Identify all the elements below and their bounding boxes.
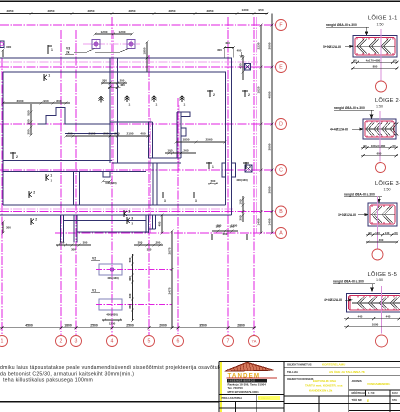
section 5-5 rebar hatch	[352, 297, 400, 310]
svg-text:1: 1	[212, 165, 214, 169]
svg-text:3: 3	[156, 103, 158, 107]
svg-text:3500: 3500	[199, 323, 207, 327]
svg-text:400: 400	[237, 49, 242, 53]
svg-text:200: 200	[114, 132, 119, 136]
room mark K1 b	[46, 174, 53, 183]
wall centerline x179	[178, 105, 180, 170]
svg-text:400(430): 400(430)	[106, 313, 118, 317]
dim bottom row	[0, 323, 256, 329]
section 3-3 beam outline	[368, 203, 397, 226]
bubble axis C	[276, 165, 287, 176]
svg-text:3: 3	[128, 210, 130, 214]
tree mark 3 top a	[125, 96, 131, 107]
svg-text:60: 60	[368, 231, 372, 235]
svg-text:600: 600	[223, 232, 228, 236]
terrace stub x63	[63, 215, 65, 243]
svg-text:1850: 1850	[142, 47, 146, 54]
bubble axis 4	[107, 336, 118, 347]
section mark 2 right b	[242, 90, 250, 97]
wall outer bottom	[0, 214, 232, 216]
interior wall x110	[109, 58, 111, 163]
svg-text:3: 3	[75, 339, 78, 345]
dim col x272	[267, 14, 273, 235]
svg-text:300: 300	[138, 241, 143, 245]
dim V col	[128, 254, 134, 322]
svg-text:2675: 2675	[167, 247, 171, 254]
room wall x157	[156, 163, 158, 205]
bubble axis D	[276, 119, 287, 130]
svg-text:1:50: 1:50	[376, 105, 383, 109]
svg-text:1: 1	[48, 74, 50, 78]
svg-text:400: 400	[157, 221, 161, 226]
dim 105 265 row	[165, 149, 196, 155]
dim 400 2100 row	[64, 132, 150, 138]
svg-text:2850: 2850	[48, 9, 55, 13]
sheet bottom border	[0, 401, 219, 403]
dim terrace right ends	[134, 241, 163, 252]
svg-text:400(430): 400(430)	[107, 276, 119, 280]
svg-text:265: 265	[183, 149, 188, 153]
wall inner top	[3, 71, 226, 73]
tree mark 3 d	[211, 234, 213, 240]
cell tellija	[287, 370, 298, 374]
interior wall x148	[148, 122, 150, 158]
svg-text:3: 3	[131, 217, 133, 221]
svg-text:6: 6	[177, 339, 180, 345]
cell too nr	[352, 397, 398, 402]
axis B horizontal	[0, 211, 276, 213]
svg-text:60: 60	[353, 58, 357, 62]
pad V1 centerline	[96, 304, 172, 306]
svg-text:3000: 3000	[267, 42, 271, 49]
svg-text:2850: 2850	[129, 9, 136, 13]
wall right inner	[225, 72, 227, 205]
svg-text:A: A	[279, 231, 283, 237]
svg-text:360: 360	[217, 224, 222, 228]
bubble axis A	[276, 228, 287, 239]
svg-text:2800: 2800	[237, 323, 245, 327]
wall left	[2, 72, 4, 205]
logo TANDEM	[225, 362, 278, 383]
wall step left	[38, 108, 110, 125]
tree mark 3 a	[163, 192, 166, 203]
pad V1	[99, 299, 122, 310]
pad column right	[245, 165, 252, 172]
bubble axis F	[276, 20, 287, 31]
svg-text:2850: 2850	[207, 9, 214, 13]
section 5-5 rebar dots	[357, 296, 395, 310]
pad V2	[99, 264, 122, 275]
svg-text:500: 500	[128, 257, 132, 262]
svg-text:350: 350	[128, 304, 132, 309]
dim terrace left ends	[56, 241, 91, 252]
section 2-2 bars label	[330, 128, 363, 132]
svg-text:100: 100	[238, 199, 242, 204]
section 1-1 dims	[351, 58, 399, 70]
svg-text:2100: 2100	[127, 132, 134, 136]
value koosseis 1	[313, 379, 337, 383]
svg-text:60: 60	[393, 58, 397, 62]
interior wall y122	[110, 121, 153, 123]
svg-text:1850: 1850	[183, 138, 190, 142]
svg-text:2: 2	[16, 155, 18, 159]
svg-text:4+4Ø12A-III: 4+4Ø12A-III	[324, 298, 342, 302]
row projekteeris	[222, 396, 271, 400]
svg-text:LÕIGE 5-5: LÕIGE 5-5	[368, 271, 398, 278]
interior wall x117	[117, 58, 119, 163]
svg-text:140: 140	[375, 231, 380, 235]
axis 6 vertical	[177, 98, 179, 335]
svg-text:4: 4	[111, 339, 114, 345]
svg-text:KORTERELAMU: KORTERELAMU	[322, 362, 345, 366]
svg-text:1 :50: 1 :50	[368, 391, 375, 395]
terrace wall bottom	[77, 231, 149, 233]
svg-text:F: F	[279, 23, 282, 29]
svg-text:2850: 2850	[7, 9, 14, 13]
bubble axis B	[276, 206, 287, 217]
svg-text:C: C	[279, 168, 283, 174]
dim col x261	[256, 23, 262, 234]
door notch	[103, 172, 110, 178]
svg-text:1: 1	[249, 165, 251, 169]
axis 7 vertical	[227, 17, 229, 335]
svg-text:300: 300	[26, 119, 30, 124]
svg-text:200: 200	[120, 79, 125, 83]
dim 400 300 corner	[217, 41, 242, 57]
svg-text:300: 300	[238, 215, 242, 220]
svg-text:2: 2	[60, 339, 63, 345]
section 5-5 beam outline	[347, 294, 400, 313]
svg-text:rangid Ø8A-III s.300: rangid Ø8A-III s.300	[344, 193, 375, 197]
room mark K3 b	[127, 217, 134, 226]
bubble axis 3	[71, 336, 82, 347]
section 5-5 stirrup	[349, 296, 400, 311]
svg-text:3: 3	[195, 199, 197, 203]
dim 360 1300	[217, 224, 238, 228]
svg-text:5: 5	[148, 339, 151, 345]
wall outer top	[0, 57, 232, 59]
terrace stub x60	[60, 215, 62, 243]
axis E horizontal	[0, 66, 276, 68]
label V1	[91, 289, 100, 293]
section 5-5 title	[368, 271, 398, 282]
logo address	[228, 382, 267, 393]
dim 300 left edge	[1, 45, 11, 57]
svg-text:400: 400	[225, 41, 230, 45]
section mark 2 right a	[207, 90, 215, 97]
interior wall x181	[180, 112, 182, 158]
svg-text:2: 2	[213, 93, 215, 97]
svg-text:2850: 2850	[88, 9, 95, 13]
svg-text:7: 7	[227, 339, 230, 345]
axis D horizontal	[0, 123, 276, 125]
svg-text:2000: 2000	[159, 323, 167, 327]
bubble axis 5	[144, 336, 155, 347]
wall centerline top	[0, 61, 258, 63]
svg-text:1:50: 1:50	[376, 278, 383, 282]
corridor wall top-right	[149, 157, 182, 159]
cell objekti koosseis	[287, 377, 314, 381]
svg-text:900: 900	[43, 99, 48, 103]
axis 4 vertical	[111, 17, 113, 335]
section 5-5 bubble	[376, 335, 388, 347]
svg-text:OBJEKTI KOOSSEIS: OBJEKTI KOOSSEIS	[287, 377, 314, 381]
dim top 2850 row	[0, 8, 269, 15]
notes line 3	[3, 378, 93, 384]
dim 1200 pads	[93, 30, 133, 36]
svg-text:1300: 1300	[231, 224, 238, 228]
pad V3 right	[127, 40, 135, 49]
interior wall x152	[152, 122, 154, 158]
notes line 2	[0, 372, 134, 378]
svg-text:2: 2	[33, 191, 35, 195]
svg-text:rangid Ø8A-III s.300: rangid Ø8A-III s.300	[334, 106, 365, 110]
section 3-3 rebar dots	[371, 206, 391, 224]
dim col x243 upper	[238, 55, 244, 80]
terrace stub cap	[149, 228, 156, 230]
section 3-3 title	[375, 180, 400, 192]
svg-text:KUU: KUU	[392, 391, 398, 395]
svg-text:EHITUSLIK OSA: EHITUSLIK OSA	[313, 379, 337, 383]
axis 3 vertical	[75, 30, 77, 335]
dim 1850 vertical	[142, 40, 148, 71]
svg-text:950: 950	[258, 8, 263, 12]
value joonis	[367, 382, 391, 386]
pad column corner E	[245, 64, 251, 71]
svg-text:D: D	[279, 122, 283, 128]
section 1-1 beam outline	[353, 36, 397, 58]
section 2-2 rebar dots	[366, 121, 393, 137]
svg-text:LÕIGE 1-1: LÕIGE 1-1	[368, 15, 398, 22]
svg-text:1200: 1200	[119, 30, 126, 34]
svg-text:2500: 2500	[90, 323, 98, 327]
svg-text:2100: 2100	[89, 132, 96, 136]
svg-text:1: 1	[50, 174, 52, 178]
svg-text:445: 445	[358, 315, 363, 319]
svg-text:1:50: 1:50	[377, 23, 384, 27]
section 3-3 stirrup	[370, 205, 395, 224]
svg-text:1200: 1200	[101, 30, 108, 34]
tree mark small a	[99, 97, 104, 103]
svg-text:4x170=680: 4x170=680	[366, 58, 381, 62]
svg-text:1300: 1300	[242, 8, 249, 12]
svg-text:MTR EP10065279-0001: MTR EP10065279-0001	[228, 390, 260, 394]
corridor wall mid	[112, 162, 181, 164]
section mark 5 a	[206, 162, 214, 169]
svg-text:400: 400	[67, 132, 72, 136]
svg-text:TARTU mnt. KONSTR. osa: TARTU mnt. KONSTR. osa	[305, 384, 343, 388]
value koosseis 2	[305, 384, 343, 388]
svg-text:3+3Ø12A-III: 3+3Ø12A-III	[338, 213, 356, 217]
svg-text:4500: 4500	[25, 323, 33, 327]
svg-text:400: 400	[379, 238, 384, 242]
svg-text:140: 140	[385, 231, 390, 235]
svg-text:330: 330	[128, 293, 132, 298]
svg-text:1400: 1400	[256, 218, 260, 225]
label 400 430 V2	[107, 276, 119, 280]
section 2-2 title	[375, 97, 400, 109]
section 3-3 bubble	[372, 249, 383, 260]
svg-text:500: 500	[26, 110, 30, 115]
axis F horizontal	[0, 24, 276, 26]
dim col x243 lower	[238, 196, 244, 222]
pad V3 leader	[74, 49, 129, 52]
value too nr	[367, 399, 369, 403]
cell objekti nimetus	[287, 362, 312, 366]
section 1-1 rebar hatch	[356, 39, 396, 54]
label 400 430 V1	[106, 313, 118, 317]
svg-text:300: 300	[83, 241, 88, 245]
section 1-1 rebar dots	[356, 38, 394, 55]
wall step x181	[181, 128, 186, 136]
svg-text:300: 300	[217, 48, 222, 52]
svg-text:2560: 2560	[206, 138, 213, 142]
section 2-2 axis	[379, 111, 381, 162]
svg-text:3: 3	[184, 103, 186, 107]
section 2-2 bubble	[376, 163, 386, 173]
terrace stub x146	[145, 215, 147, 233]
row projekteeris value	[258, 396, 280, 400]
svg-text:200: 200	[103, 132, 108, 136]
svg-text:60: 60	[392, 144, 396, 148]
svg-text:TANDEM: TANDEM	[228, 373, 261, 380]
section 5-5 L-bar	[350, 296, 357, 311]
svg-text:TELLIJA: TELLIJA	[287, 370, 298, 374]
section 2-2 dims	[361, 144, 398, 157]
dim 500 300 300 col	[26, 104, 32, 137]
svg-text:3000: 3000	[267, 186, 271, 193]
dim 400 430 pilaster	[236, 178, 248, 182]
svg-text:2: 2	[35, 218, 37, 222]
axis C horizontal	[0, 169, 276, 171]
svg-text:7A: 7A	[252, 339, 257, 344]
room wall x153	[152, 163, 154, 205]
interior wall x177	[176, 112, 178, 158]
room wall x79	[79, 172, 81, 206]
terrace stub x155	[155, 215, 157, 229]
section 1-1 bars label	[323, 45, 353, 49]
room mark K3 a	[124, 210, 130, 218]
svg-text:LÕIGE 2-2: LÕIGE 2-2	[375, 97, 400, 104]
dim 300 left edge B	[1, 220, 11, 234]
section 1-1 title	[368, 15, 398, 27]
dim 400 x162	[157, 213, 163, 234]
terrace stub x148	[148, 215, 150, 233]
svg-text:4000: 4000	[267, 91, 271, 98]
room mark K2 a	[29, 191, 35, 199]
pad V3 left	[92, 40, 100, 49]
svg-text:300: 300	[60, 241, 65, 245]
axis 5 vertical	[148, 55, 150, 335]
svg-text:OBJEKTI NIMETUS: OBJEKTI NIMETUS	[287, 362, 312, 366]
svg-text:600(630): 600(630)	[105, 181, 116, 185]
svg-text:60: 60	[363, 144, 367, 148]
label V3	[65, 47, 74, 55]
svg-text:1800: 1800	[64, 323, 72, 327]
room mark K1 a	[44, 74, 50, 82]
svg-text:2850: 2850	[169, 9, 176, 13]
svg-text:2475: 2475	[167, 287, 171, 294]
svg-text:200: 200	[102, 79, 107, 83]
corridor wall bottom-left	[3, 171, 146, 173]
title block grid	[219, 362, 400, 412]
interior wall y133	[65, 133, 118, 135]
svg-text:400(430): 400(430)	[236, 178, 248, 182]
section 5-5 axis	[381, 286, 383, 334]
axis 1 vertical	[1, 58, 3, 334]
svg-text:3000: 3000	[267, 143, 271, 150]
svg-text:300: 300	[6, 45, 11, 49]
section mark 5 b	[243, 162, 251, 169]
section 5-5 rangid label	[333, 280, 375, 292]
wall centerline y209	[0, 208, 233, 210]
svg-text:VUNDAMENDID.: VUNDAMENDID.	[367, 382, 391, 386]
bubble axis 6	[173, 336, 184, 347]
svg-text:V2: V2	[92, 257, 96, 261]
terrace stub x77	[76, 215, 78, 243]
sheet top border	[0, 0, 400, 2]
section 1-1 stirrup	[355, 38, 395, 56]
svg-text:105: 105	[167, 149, 172, 153]
notes line 1	[0, 365, 221, 371]
wall right outer	[231, 58, 233, 215]
tree mark 3 top c	[180, 96, 186, 107]
svg-text:430: 430	[238, 63, 242, 68]
dim 1200 V1	[102, 318, 122, 325]
svg-text:B: B	[279, 209, 283, 215]
section 1-1 axis	[380, 29, 382, 81]
svg-text:rangid Ø8A-III s.300: rangid Ø8A-III s.300	[326, 23, 357, 27]
dim 600 630 notch	[101, 179, 116, 184]
svg-text:300: 300	[128, 276, 132, 281]
svg-text:3: 3	[164, 199, 166, 203]
svg-text:1000: 1000	[372, 323, 379, 327]
svg-text:300: 300	[156, 241, 161, 245]
section 3-3 rangid label	[344, 193, 382, 203]
svg-text:2k: 2k	[66, 51, 70, 55]
terrace stub x74	[73, 215, 75, 243]
section 5-5 dims	[344, 315, 400, 329]
section 2-2 rangid label	[334, 106, 374, 118]
svg-text:1:50: 1:50	[384, 188, 391, 192]
dim 2675 2475 col	[167, 229, 173, 329]
pad V2 centerline	[96, 269, 172, 271]
pad centerline	[83, 43, 140, 45]
tree mark 3 top b	[152, 96, 158, 107]
svg-text:1: 1	[51, 48, 53, 52]
bubble axis E	[276, 62, 287, 73]
bubble axis 7A	[249, 336, 260, 347]
bubble axis 7	[223, 336, 234, 347]
value koosseis 3	[309, 388, 333, 392]
section 1-1 bubble	[376, 81, 387, 92]
dim 1850 2560 row	[174, 138, 226, 144]
bubble axis 1	[0, 336, 8, 347]
svg-text:AS ÜHE JA TALLINNA 78: AS ÜHE JA TALLINNA 78	[329, 369, 365, 374]
wall inner bottom	[3, 204, 226, 206]
section 3-3 dims	[366, 231, 399, 244]
svg-text:dmiku laius täpsustatakse peal: dmiku laius täpsustatakse peale vundamen…	[0, 365, 221, 371]
corridor wall top-left	[3, 160, 112, 162]
cell joonis	[352, 379, 362, 383]
axis 7A vertical	[253, 17, 255, 335]
axis 7A twin vertical	[256, 17, 258, 233]
axis 2 vertical	[60, 30, 62, 335]
svg-text:160x3=480: 160x3=480	[371, 144, 386, 148]
svg-text:E: E	[367, 399, 369, 403]
section 2-2 rebar hatch	[366, 122, 399, 136]
svg-text:300: 300	[26, 129, 30, 134]
